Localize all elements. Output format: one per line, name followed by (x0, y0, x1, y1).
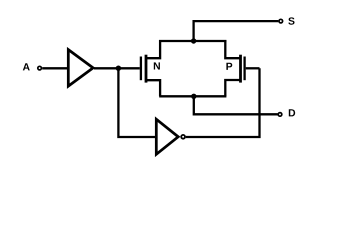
PMOS Q2 drain lead (top) (225, 40, 240, 58)
PMOS Q2 gate bar (243, 57, 245, 81)
wire inverter output to PMOS gate (186, 68, 260, 137)
NMOS Q1 channel bar (145, 55, 148, 83)
terminal S (open circle) (279, 19, 283, 23)
junction dot bottom rail (191, 94, 196, 99)
wire bottom rail to D terminal (194, 96, 278, 114)
terminal D (open circle) (278, 113, 282, 117)
wire top rail to S terminal (194, 21, 279, 41)
NMOS Q1 gate bar (140, 57, 142, 81)
top rail wire (159, 40, 226, 42)
inverter U2 output bubble (181, 135, 185, 139)
wire node down to inverter input (118, 68, 156, 137)
label D (289, 109, 295, 116)
bottom rail wire (159, 95, 226, 97)
label P (226, 63, 232, 70)
junction dot main node (116, 66, 121, 71)
label N (154, 62, 160, 69)
label S (288, 17, 294, 24)
buffer U1 (non-inverting driver) (68, 50, 93, 87)
wire buffer output to NMOS gate (94, 67, 140, 69)
terminal A (open circle) (38, 66, 42, 70)
junction dot top rail (191, 38, 196, 43)
PMOS Q2 source lead (bottom) (225, 80, 240, 96)
PMOS Q2 channel bar (239, 55, 242, 83)
NMOS Q1 source lead (bottom) (146, 80, 160, 96)
PMOS Q2 gate lead (246, 67, 260, 69)
label A (23, 63, 30, 70)
inverter U2 triangle (156, 119, 178, 154)
wire A terminal to buffer input (42, 67, 68, 69)
NMOS Q1 drain lead (top) (146, 40, 160, 58)
